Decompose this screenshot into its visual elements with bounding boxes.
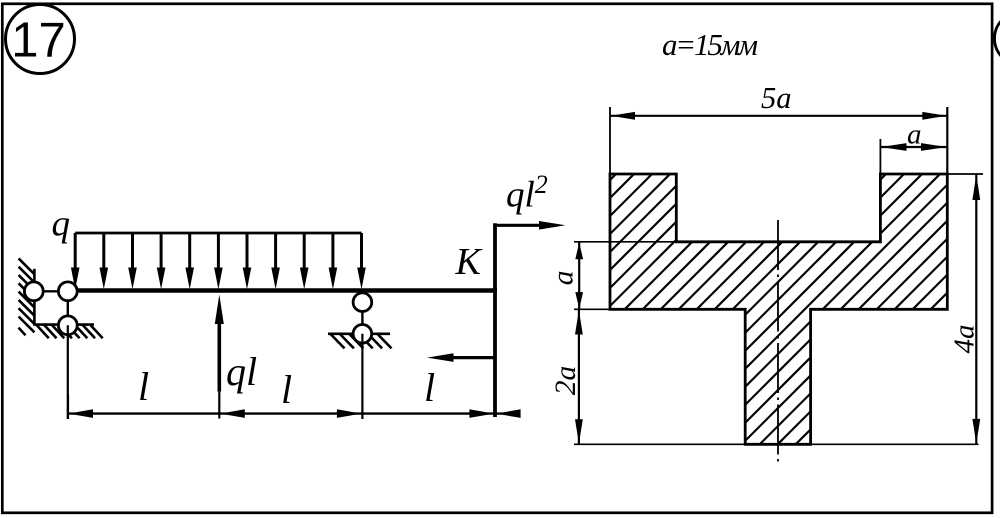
left support lower roller (58, 316, 77, 335)
a left arrowhead down (575, 292, 583, 309)
extension line flange bottom (left) (574, 308, 610, 310)
svg-text:a: a (548, 271, 580, 286)
extension line 5a left (609, 107, 611, 173)
moment upper arrowhead (539, 221, 566, 230)
extension line a right tab left side (879, 139, 881, 173)
dimension line a (flange height) (578, 242, 580, 309)
extension line at section bottom (574, 443, 979, 445)
partial circle of adjacent problem number (995, 12, 1000, 65)
2a arrowhead up (575, 310, 583, 335)
svg-text:l: l (138, 364, 149, 409)
extension line below right support (361, 334, 363, 419)
svg-text:17: 17 (11, 14, 66, 68)
link between beam pin and lower roller (67, 291, 69, 325)
link between right support rollers (361, 302, 363, 334)
link between wall roller and beam pin (34, 290, 68, 292)
right support ground line (328, 332, 390, 335)
left support roller at wall (24, 282, 43, 301)
left support wall hatching (19, 258, 35, 332)
4a arrowhead up (972, 175, 980, 200)
beam left end pin (58, 282, 77, 301)
distributed load arrows q (74, 233, 77, 270)
moment upper arrow shaft (495, 224, 542, 227)
extension line below left support (67, 325, 69, 419)
left support wall line (33, 269, 36, 326)
problem number circle 17 (6, 5, 75, 74)
section vertical centerline (777, 220, 779, 462)
svg-text:l: l (281, 367, 292, 412)
dimension line 4a (total height) (975, 174, 977, 444)
extension line at tab top right (947, 173, 983, 175)
svg-text:K: K (455, 241, 483, 283)
right support ground hatching (331, 334, 392, 348)
moment lower arrow shaft (452, 356, 495, 359)
dimension line 2a (stem height) (578, 309, 580, 444)
dimension line 5a (610, 115, 947, 117)
force ql arrowhead (215, 295, 224, 325)
dimension line l l l (68, 412, 520, 414)
beam (68, 288, 497, 293)
svg-text:q: q (52, 204, 71, 245)
dim arrowhead outside right pointing left (496, 409, 520, 418)
5a arrowhead left (611, 112, 635, 120)
svg-text:ql: ql (226, 349, 257, 394)
extension line 5a right / a right (946, 107, 948, 173)
left support ground hatching (19, 325, 103, 338)
dimension line a (right tab) (880, 146, 947, 148)
svg-text:l: l (424, 365, 435, 410)
2a arrowhead down (575, 419, 583, 444)
right support upper roller (353, 293, 372, 312)
moment lower arrowhead (427, 353, 454, 362)
dimension extension at beam left end (67, 395, 69, 420)
dim arrowhead left end pointing left (69, 409, 94, 418)
svg-text:ql2: ql2 (506, 170, 548, 216)
a right arrowhead right (921, 143, 947, 151)
svg-text:a=15мм: a=15мм (662, 27, 757, 62)
extension line below ql arrow (218, 392, 220, 419)
dim arrowhead at right support pointing right (337, 409, 362, 418)
dim arrowhead at K pointing right (469, 409, 494, 418)
a right arrowhead left (881, 143, 907, 151)
a left arrowhead up (575, 243, 583, 260)
force ql arrow shaft (218, 319, 222, 392)
svg-text:4a: 4a (948, 325, 980, 354)
cross-section hatching (330, 160, 1000, 460)
extension line flange top (left) (574, 241, 676, 243)
moment couple vertical bar at K (493, 223, 497, 417)
svg-text:5a: 5a (761, 81, 792, 115)
5a arrowhead right (922, 112, 946, 120)
distributed load top line (75, 232, 361, 235)
svg-text:a: a (907, 119, 922, 151)
right support lower roller (353, 325, 372, 344)
4a arrowhead down (972, 419, 980, 444)
dim arrowhead at ql pointing left (220, 409, 245, 418)
left support ground line (34, 323, 94, 326)
svg-text:2a: 2a (550, 366, 582, 396)
cross-section outline (610, 174, 947, 444)
